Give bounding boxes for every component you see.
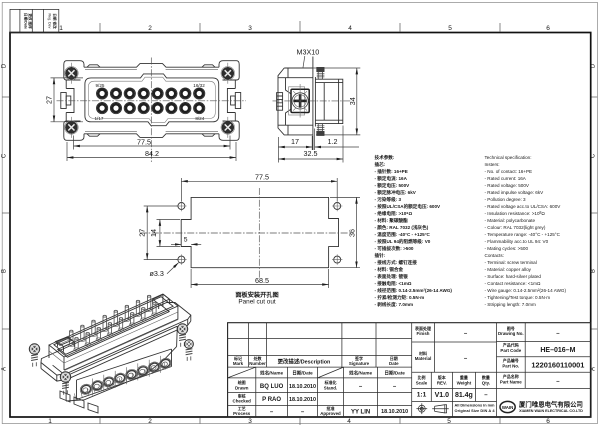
- svg-text:- 可插拔次数: >500: - 可插拔次数: >500: [375, 245, 414, 252]
- svg-text:绘图: 绘图: [238, 379, 246, 385]
- svg-text:C: C: [590, 153, 596, 158]
- dimension 84.2 (front view): [67, 142, 236, 161]
- front view corner boss bottom-right: [219, 121, 239, 140]
- svg-text:Drawing No.: Drawing No.: [498, 331, 524, 336]
- side view centerline: [273, 100, 353, 102]
- 3d bottom ribs: [74, 363, 165, 401]
- part code cell: [500, 341, 575, 354]
- svg-text:16/32: 16/32: [193, 83, 205, 88]
- svg-text:D: D: [590, 63, 596, 68]
- svg-text:ø3.3: ø3.3: [150, 269, 164, 278]
- svg-text:1.2: 1.2: [328, 137, 338, 146]
- screw BL: [65, 117, 79, 138]
- top-left revision mini table: [10, 9, 59, 32]
- title block right part lines: [412, 323, 591, 417]
- svg-text:Insters:: Insters:: [485, 162, 500, 167]
- dimension 17 (side view): [278, 136, 312, 163]
- dimension 1.2 (side view): [315, 129, 359, 151]
- svg-text:81.4g: 81.4g: [455, 392, 473, 399]
- 3d shell walls: [49, 294, 178, 370]
- svg-text:- Insulation resistance: >108Ω: - Insulation resistance: >108Ω: [485, 211, 546, 216]
- 3d shell rim inner: [54, 297, 173, 355]
- caption chinese: [235, 291, 278, 299]
- svg-text:P RAO: P RAO: [262, 397, 281, 403]
- svg-text:表面处理: 表面处理: [414, 325, 431, 331]
- qty header: [481, 374, 490, 386]
- pin number labels: [95, 83, 206, 121]
- svg-text:- 额定电压: 500V: - 额定电压: 500V: [375, 182, 411, 189]
- svg-text:- 接触电阻: <1mΩ: - 接触电阻: <1mΩ: [375, 280, 412, 287]
- svg-text:77.5: 77.5: [255, 173, 269, 182]
- header name/date row: [259, 370, 405, 377]
- svg-text:Finish: Finish: [417, 331, 430, 336]
- svg-text:14: 14: [149, 229, 158, 237]
- svg-text:All Dimensions in mm: All Dimensions in mm: [455, 402, 496, 407]
- svg-text:3: 3: [248, 25, 252, 32]
- svg-text:3: 3: [248, 418, 252, 425]
- 3d screw left-back: [29, 344, 39, 367]
- svg-text:BQ LUO: BQ LUO: [260, 384, 284, 390]
- 3d contact pins: [69, 295, 157, 350]
- 3d bottom slots: [60, 391, 98, 413]
- right latch pocket: [227, 89, 240, 113]
- svg-text:产品名称: 产品名称: [503, 373, 519, 379]
- svg-text:- Rated impulse voltage: 6kV: - Rated impulse voltage: 6kV: [485, 190, 545, 195]
- side view fixing screw square: [289, 84, 310, 118]
- zone ticks right: [592, 97, 598, 329]
- svg-text:- 温度范围: -40°C - +125°C: - 温度范围: -40°C - +125°C: [375, 231, 431, 238]
- front view corner boss top-right: [219, 61, 239, 80]
- svg-text:版本: 版本: [437, 374, 446, 380]
- svg-text:插芯:: 插芯:: [375, 161, 386, 168]
- svg-text:日期: 日期: [390, 355, 398, 361]
- svg-text:34: 34: [348, 97, 357, 105]
- svg-text:5: 5: [447, 418, 451, 425]
- svg-text:Technical specification:: Technical specification:: [485, 155, 532, 160]
- cutout centerline vertical: [258, 188, 260, 278]
- svg-text:1:1: 1:1: [417, 392, 427, 399]
- dimensions note: [455, 402, 496, 413]
- weight value: [455, 392, 473, 399]
- svg-text:Stand.: Stand.: [324, 386, 337, 391]
- svg-text:- 接线方式: 螺钉连接: - 接线方式: 螺钉连接: [375, 259, 418, 266]
- svg-text:27: 27: [138, 229, 147, 237]
- svg-text:Scale: Scale: [416, 380, 428, 385]
- svg-text:- 剥线长度: 7.0mm: - 剥线长度: 7.0mm: [375, 301, 414, 308]
- hole bottom-right: [332, 254, 342, 264]
- panel cutout outline: [181, 197, 338, 267]
- wain logo: [500, 401, 515, 412]
- svg-text:- Rated voltage acc.to UL/CSA:: - Rated voltage acc.to UL/CSA: 600V: [485, 204, 562, 209]
- svg-text:图号: 图号: [507, 325, 515, 331]
- svg-text:Qty.: Qty.: [482, 380, 490, 385]
- zone ticks top: [100, 21, 500, 32]
- svg-text:2: 2: [148, 418, 152, 425]
- svg-text:6: 6: [546, 418, 550, 425]
- svg-text:姓名/Name: 姓名/Name: [259, 370, 283, 377]
- 3d screw right-back: [177, 324, 187, 347]
- svg-text:REV.: REV.: [437, 380, 447, 385]
- svg-text:材料: 材料: [418, 350, 427, 356]
- 3d flange thickness: [41, 315, 191, 381]
- svg-text:Date: Date: [389, 361, 399, 366]
- svg-text:处数: 处数: [253, 355, 262, 361]
- svg-text:1: 1: [48, 418, 52, 425]
- svg-text:- 按照UL 94的阻燃等级: V0: - 按照UL 94的阻燃等级: V0: [375, 238, 431, 245]
- svg-text:M3X10: M3X10: [297, 48, 320, 57]
- svg-text:- Rated voltage: 500V: - Rated voltage: 500V: [485, 183, 530, 188]
- svg-text:- Material: polycarbonate: - Material: polycarbonate: [485, 218, 536, 223]
- svg-text:Mark: Mark: [233, 361, 244, 366]
- svg-text:签字: 签字: [354, 355, 363, 361]
- 3d shell wall details: [49, 312, 178, 371]
- svg-text:36: 36: [348, 229, 357, 237]
- title block diagonals in name header: [228, 367, 344, 378]
- svg-text:产品代码: 产品代码: [503, 341, 519, 347]
- screw TL: [65, 63, 79, 84]
- svg-text:- Stripping length: 7.0mm: - Stripping length: 7.0mm: [485, 302, 536, 307]
- svg-text:Drawn: Drawn: [235, 386, 249, 391]
- svg-text:- 拧紧/检测力矩: 0.5N·m: - 拧紧/检测力矩: 0.5N·m: [375, 294, 425, 301]
- front view centerline horizontal: [57, 100, 247, 102]
- spec text english column: [485, 155, 567, 307]
- side view rear block: [315, 79, 342, 123]
- 3d lower body: [53, 326, 178, 401]
- svg-text:- Terminal: screw terminal: - Terminal: screw terminal: [485, 260, 537, 265]
- cutout centerline horizontal: [140, 232, 352, 234]
- svg-text:Part Code: Part Code: [500, 348, 521, 353]
- 3d recess floor: [58, 304, 170, 357]
- svg-text:产品编号: 产品编号: [503, 357, 519, 363]
- svg-text:- Rated current: 16A: - Rated current: 16A: [485, 176, 527, 181]
- contacts row 2: [97, 103, 205, 114]
- svg-text:- 额定脉冲电压: 6kV: - 额定脉冲电压: 6kV: [375, 189, 417, 196]
- svg-text:- 表面处理: 镀银: - 表面处理: 镀银: [375, 273, 409, 280]
- left latch pocket: [61, 89, 74, 113]
- part no cell: [502, 357, 584, 370]
- svg-text:- 绝缘电阻: >10⁸Ω: - 绝缘电阻: >10⁸Ω: [375, 210, 413, 217]
- screw TR: [221, 63, 235, 84]
- rev value: [435, 392, 450, 399]
- zone numbers top: [59, 25, 550, 32]
- svg-text:- Pollution degree: 3: - Pollution degree: 3: [485, 197, 527, 202]
- svg-text:更改描述/Description: 更改描述/Description: [278, 358, 331, 366]
- svg-text:C: C: [2, 153, 8, 158]
- svg-text:Original Size DIN A 4: Original Size DIN A 4: [455, 408, 496, 413]
- scale header: [416, 374, 428, 386]
- projection symbol circle: [416, 403, 427, 414]
- svg-text:重量: 重量: [460, 374, 468, 380]
- svg-text:标记: 标记: [233, 355, 242, 361]
- M3X10 label with leader: [297, 48, 320, 68]
- svg-text:批准: 批准: [327, 405, 335, 411]
- 3d rim end tabs: [58, 294, 170, 351]
- row checked: [233, 392, 316, 403]
- svg-text:日期 修改: 日期 修改: [53, 13, 58, 29]
- svg-text:18.10.2010: 18.10.2010: [381, 409, 408, 415]
- svg-text:4: 4: [348, 25, 352, 32]
- dimension 36 (cutout): [330, 197, 360, 267]
- side view PE comb: [277, 93, 283, 111]
- screw BR: [221, 117, 235, 138]
- svg-text:日期/Date: 日期/Date: [384, 370, 405, 377]
- zone letters right margin: [590, 63, 596, 371]
- svg-text:日期/Date: 日期/Date: [24, 13, 29, 29]
- svg-text:4: 4: [347, 418, 351, 425]
- svg-text:8/24: 8/24: [195, 116, 204, 121]
- dimension 34 (side view): [290, 68, 360, 135]
- M3 clamp screw top: [317, 67, 325, 79]
- header date: [389, 355, 399, 366]
- svg-text:工艺: 工艺: [238, 405, 246, 411]
- svg-text:厦门唯恩电气有限公司: 厦门唯恩电气有限公司: [518, 399, 583, 408]
- svg-text:27: 27: [44, 96, 53, 104]
- dimension 77.5 (cutout): [181, 173, 337, 201]
- svg-text:- 按照UL/CSA的额定电压: 600V: - 按照UL/CSA的额定电压: 600V: [375, 203, 442, 210]
- caption english: [238, 299, 276, 306]
- finish cell: [414, 325, 468, 337]
- front view body outline: [66, 64, 235, 138]
- svg-text:姓名/Name: 姓名/Name: [348, 370, 372, 377]
- svg-text:Contacts:: Contacts:: [485, 253, 504, 258]
- 3d terminal band: [77, 349, 172, 400]
- svg-text:- Tightening/Test torque: 0.5N: - Tightening/Test torque: 0.5N·m: [485, 295, 551, 300]
- svg-text:- Contact resistance: <1mΩ: - Contact resistance: <1mΩ: [485, 281, 541, 286]
- row drawn: [235, 379, 397, 390]
- dimension 68.5 (cutout): [191, 269, 329, 288]
- row process approved: [233, 405, 408, 416]
- svg-text:- 颜色: RAL 7032 (浅灰色): - 颜色: RAL 7032 (浅灰色): [375, 224, 429, 231]
- svg-text:- Flammability acc.to UL 94: V: - Flammability acc.to UL 94: V0: [485, 239, 549, 244]
- svg-text:18.10.2010: 18.10.2010: [289, 384, 316, 390]
- hole bottom-left: [176, 254, 186, 264]
- scale value: [417, 392, 427, 399]
- side view panel plane line: [314, 77, 316, 127]
- svg-text:Signature: Signature: [349, 361, 370, 366]
- weight header: [457, 374, 472, 386]
- svg-text:Part No.: Part No.: [502, 363, 519, 368]
- svg-text:5: 5: [448, 25, 452, 32]
- svg-text:- 污染等级: 3: - 污染等级: 3: [375, 196, 402, 203]
- front view corner boss bottom-left: [64, 121, 84, 140]
- rev header: [437, 374, 447, 386]
- title block horizontal lines left part: [228, 339, 412, 406]
- svg-text:Panel cut out: Panel cut out: [238, 299, 276, 306]
- front view body inner contour: [85, 70, 218, 132]
- dimension 14 (cutout): [149, 220, 180, 247]
- material cell: [415, 350, 468, 362]
- 3d terminal holes: [79, 357, 173, 396]
- svg-text:HE–016–M: HE–016–M: [540, 347, 575, 354]
- svg-text:9/25: 9/25: [96, 83, 105, 88]
- title block vertical lines left upper: [248, 323, 376, 367]
- svg-text:V1.0: V1.0: [435, 392, 450, 399]
- svg-text:更改 图样: 更改 图样: [28, 12, 33, 29]
- front view corner boss top-left: [64, 61, 84, 80]
- zone ticks bottom: [100, 418, 500, 425]
- M3 clamp screw bottom: [317, 124, 325, 136]
- qty value: [484, 392, 488, 398]
- svg-text:1: 1: [59, 25, 63, 32]
- title block outer border: [228, 323, 591, 417]
- dimension 32.5 (side view): [278, 126, 343, 163]
- company name english: [519, 409, 583, 413]
- svg-text:Process: Process: [233, 411, 251, 416]
- svg-text:Material: Material: [415, 356, 432, 361]
- svg-text:Weight: Weight: [457, 380, 472, 385]
- 3d screw left-front: [60, 372, 70, 395]
- dimension 77.5 (front view): [74, 136, 231, 150]
- header number: [249, 355, 266, 366]
- part name cell: [500, 373, 560, 385]
- svg-text:1/17: 1/17: [95, 116, 104, 121]
- zone letters left margin: [2, 63, 8, 371]
- svg-text:Reg. Dev: Reg. Dev: [48, 14, 52, 29]
- title block vertical lines left lower: [256, 323, 412, 417]
- company name chinese: [518, 399, 583, 408]
- hole top-left: [176, 201, 186, 211]
- svg-text:84.2: 84.2: [145, 149, 159, 158]
- header mark: [233, 355, 244, 366]
- svg-text:技术参数:: 技术参数:: [375, 154, 395, 161]
- svg-text:32.5: 32.5: [304, 149, 318, 158]
- front view centerline vertical: [150, 58, 152, 163]
- side view body outline: [278, 57, 313, 151]
- zone ticks left: [2, 97, 9, 329]
- header signature: [349, 355, 370, 366]
- svg-text:- Temperature range: -40°C - +: - Temperature range: -40°C - +125°C: [485, 232, 561, 237]
- svg-text:- Mating cycles: >500: - Mating cycles: >500: [485, 246, 529, 251]
- svg-text:- 线径范围: 0.14-2.5mm²(26-14 AWG): - 线径范围: 0.14-2.5mm²(26-14 AWG): [375, 287, 453, 294]
- svg-text:比例: 比例: [418, 374, 426, 380]
- svg-text:审核: 审核: [238, 392, 246, 398]
- svg-text:68.5: 68.5: [255, 276, 269, 285]
- svg-text:- 插针数: 16+PE: - 插针数: 16+PE: [375, 168, 408, 175]
- svg-text:XIAMEN WAIN ELECTRICAL CO.LTD: XIAMEN WAIN ELECTRICAL CO.LTD: [519, 409, 583, 413]
- dimension 27 (cutout): [138, 206, 178, 260]
- svg-text:Part Name: Part Name: [500, 379, 522, 384]
- zone numbers bottom: [48, 418, 550, 425]
- 3d screw right-front: [185, 340, 194, 361]
- 3d shell top face: [49, 294, 178, 357]
- drawing no cell: [498, 325, 560, 337]
- svg-text:- No. of contact: 16+PE: - No. of contact: 16+PE: [485, 169, 533, 174]
- dimension 5 (cutout): [171, 237, 201, 245]
- svg-text:标准化: 标准化: [324, 379, 337, 385]
- diameter 3.3 label with leader: [150, 263, 179, 278]
- svg-text:Checked: Checked: [233, 399, 252, 404]
- svg-text:数量: 数量: [481, 374, 490, 380]
- svg-text:- 材料: 聚碳酸酯: - 材料: 聚碳酸酯: [375, 217, 409, 224]
- svg-text:- Wire gauge: 0.14-2.5mm²(26-1: - Wire gauge: 0.14-2.5mm²(26-14 AWG): [485, 288, 567, 293]
- svg-text:- Material: copper alloy: - Material: copper alloy: [485, 267, 532, 272]
- dimension 27 (front view): [44, 78, 83, 122]
- svg-text:插针:: 插针:: [375, 252, 386, 259]
- svg-text:日期/Date: 日期/Date: [292, 370, 313, 377]
- 3d marking plate: [56, 337, 72, 345]
- svg-text:17: 17: [291, 137, 299, 146]
- svg-text:Number: Number: [249, 361, 266, 366]
- svg-text:5: 5: [184, 237, 188, 244]
- projection symbol cone: [432, 405, 449, 413]
- 3d flange plate: [41, 303, 191, 376]
- svg-text:Approved: Approved: [320, 411, 341, 416]
- svg-text:1220160110001: 1220160110001: [531, 361, 584, 370]
- insert outline: [85, 74, 219, 126]
- svg-text:A: A: [590, 367, 596, 371]
- header description: [278, 358, 331, 366]
- svg-text:D: D: [2, 63, 8, 68]
- svg-text:77.5: 77.5: [137, 137, 151, 146]
- svg-text:2: 2: [148, 25, 152, 32]
- svg-text:A: A: [2, 367, 8, 371]
- svg-text:B: B: [590, 269, 596, 273]
- svg-text:B: B: [2, 269, 8, 273]
- svg-text:18.10.2010: 18.10.2010: [289, 397, 316, 403]
- svg-text:- 额定电流: 16A: - 额定电流: 16A: [375, 175, 408, 182]
- svg-text:- Colour: RAL 7032(light grey): - Colour: RAL 7032(light grey): [485, 225, 546, 230]
- svg-text:- Surface: hard-silver plated: - Surface: hard-silver plated: [485, 274, 542, 279]
- 3d terminal separators: [93, 356, 161, 396]
- spec text chinese column: [375, 154, 453, 308]
- svg-text:- 材料: 铜合金: - 材料: 铜合金: [375, 266, 404, 273]
- contacts row 1: [97, 88, 205, 99]
- hole top-right: [332, 201, 342, 211]
- svg-text:6: 6: [546, 25, 550, 32]
- svg-text:WAIN: WAIN: [502, 405, 513, 410]
- svg-text:YY LIN: YY LIN: [351, 409, 370, 415]
